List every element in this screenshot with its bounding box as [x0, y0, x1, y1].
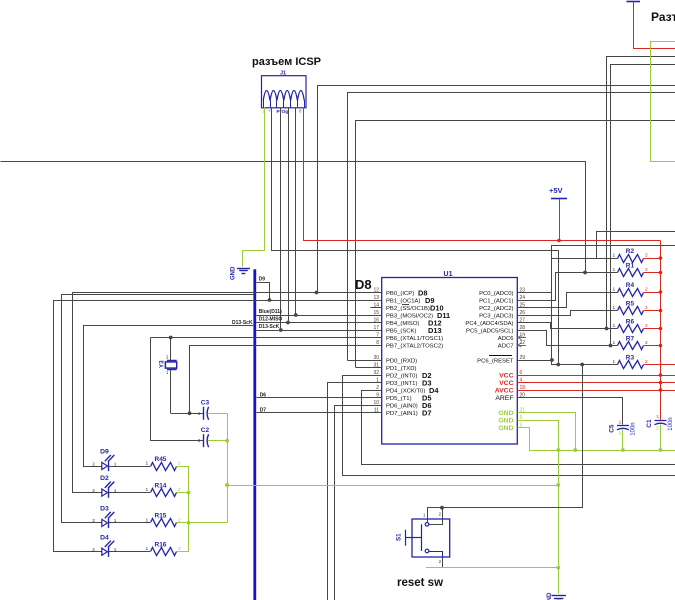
pin stub PB2	[370, 307, 381, 309]
wire PD6 down to bottom edge	[335, 406, 382, 600]
svg-text:PB6_(XTAL1/TOSC1): PB6_(XTAL1/TOSC1)	[386, 336, 443, 342]
wire J1 pin2 RESET	[272, 108, 559, 365]
svg-text:C5: C5	[608, 424, 615, 433]
wire +5V to red bus	[559, 199, 561, 241]
svg-text:VCC: VCC	[499, 380, 513, 387]
wire +5V top to right edge	[634, 2, 675, 49]
LED D9	[102, 462, 108, 469]
wire AREF to C5	[518, 398, 623, 425]
svg-text:2: 2	[92, 547, 95, 553]
capacitor C5	[617, 425, 629, 427]
svg-text:2: 2	[656, 426, 659, 432]
wire Y3 top	[170, 338, 172, 361]
svg-text:+5V: +5V	[549, 186, 563, 195]
wire J1 pin5 to PB3	[295, 108, 297, 315]
svg-text:2: 2	[198, 438, 201, 444]
svg-text:R3: R3	[626, 354, 635, 361]
wire from right edge to PD0 RXD	[348, 93, 675, 361]
svg-text:D9: D9	[100, 449, 109, 456]
green horizontal GND rail	[529, 450, 675, 452]
svg-text:1: 1	[146, 461, 149, 467]
green long wire LEDs to GND	[227, 485, 558, 487]
svg-text:D4: D4	[100, 534, 109, 541]
wire GND pin3	[518, 428, 530, 451]
svg-text:D7: D7	[422, 408, 431, 417]
wire GND pin5	[518, 420, 559, 422]
wire RESET row to R3	[518, 361, 618, 365]
svg-text:PC6_(RESET: PC6_(RESET	[477, 358, 514, 364]
svg-text:C2: C2	[201, 427, 210, 434]
wire PC5 staircase to R7	[518, 331, 618, 346]
svg-text:reset sw: reset sw	[397, 577, 443, 589]
green wire to C-gnd vertical	[189, 522, 228, 524]
svg-text:D12-MISO: D12-MISO	[259, 317, 283, 323]
resistor R7	[618, 342, 644, 350]
wire VCC pin6	[517, 375, 675, 377]
resistor R16	[151, 548, 177, 556]
wire XTAL1 to C2	[151, 338, 204, 441]
resistor R6	[618, 325, 644, 333]
svg-text:PB3_(MOSI/OC2): PB3_(MOSI/OC2)	[386, 313, 433, 319]
wire RESET from left edge to R1	[1, 162, 586, 273]
svg-text:16: 16	[373, 318, 379, 324]
wire D2 row	[72, 492, 102, 494]
wire PB7 XTAL2	[190, 345, 382, 347]
wire R5 pin2 to +5V bus	[644, 310, 661, 312]
wire PC1 staircase to R1	[518, 273, 618, 301]
svg-text:PD3_(INT1): PD3_(INT1)	[386, 381, 417, 387]
svg-text:D3: D3	[100, 506, 109, 513]
wire PD7 D7 to bus	[256, 412, 381, 414]
svg-text:AREF: AREF	[495, 395, 513, 402]
wire XTAL2 down to C3 node	[189, 345, 191, 413]
wire from right edge to PD1 TXD	[356, 121, 675, 368]
svg-text:PC3_(ADC3): PC3_(ADC3)	[479, 313, 513, 319]
wire PD0	[348, 360, 382, 362]
wire J1 pin1 GND green	[243, 108, 265, 267]
wire C5 to GND	[622, 430, 624, 451]
svg-text:R6: R6	[626, 318, 635, 325]
svg-text:PC5_(ADC5/SCL): PC5_(ADC5/SCL)	[466, 328, 514, 334]
svg-text:PD5_(T1): PD5_(T1)	[386, 396, 412, 402]
wire R14 to green	[177, 492, 189, 494]
bus D8-D13 thick blue vertical	[253, 269, 256, 600]
svg-text:2: 2	[92, 518, 95, 524]
stub ADC7 with arrow	[517, 345, 526, 347]
svg-text:PB7_(XTAL2/TOSC2): PB7_(XTAL2/TOSC2)	[386, 343, 443, 349]
svg-text:100n: 100n	[630, 422, 636, 435]
wire PD5 D6 to bus	[256, 397, 381, 399]
wire VCC pin4	[517, 382, 675, 384]
LED D2	[102, 489, 108, 496]
svg-text:1: 1	[114, 518, 117, 524]
svg-text:GND: GND	[231, 266, 237, 280]
svg-text:2: 2	[92, 461, 95, 467]
svg-text:100n: 100n	[668, 417, 674, 430]
capacitor C3	[203, 407, 205, 420]
capacitor C1	[655, 420, 667, 422]
svg-text:C1: C1	[646, 419, 653, 428]
svg-text:R1: R1	[626, 262, 635, 269]
LED D4	[102, 548, 108, 555]
wire J1 pin6 +5V red	[304, 108, 661, 241]
svg-text:PD7_(AIN1): PD7_(AIN1)	[386, 411, 418, 417]
wire LED vertical D3	[61, 295, 63, 523]
wire GND pin21	[518, 413, 576, 451]
svg-text:D13: D13	[428, 326, 442, 335]
svg-text:1: 1	[613, 253, 616, 259]
svg-text:Blue(D11): Blue(D11)	[259, 309, 282, 315]
svg-text:2: 2	[645, 253, 648, 259]
svg-text:PD2_(INT0): PD2_(INT0)	[386, 373, 417, 379]
resistor R45	[151, 463, 177, 471]
wire PB6 XTAL1	[151, 337, 382, 339]
svg-text:GND: GND	[498, 410, 513, 417]
svg-text:1: 1	[146, 517, 149, 523]
svg-text:AVCC: AVCC	[495, 387, 514, 394]
wire SDA to right edge connector	[607, 57, 675, 329]
power +5V symbol top right	[627, 1, 641, 3]
wire R6 pin2 to +5V bus	[644, 328, 661, 330]
svg-text:R16: R16	[155, 542, 167, 549]
svg-text:1: 1	[114, 547, 117, 553]
wire PD3 down to bottom edge	[328, 383, 382, 600]
wire PD4 down to right edge	[362, 391, 675, 465]
svg-text:R4: R4	[626, 282, 635, 289]
wire PC2 staircase to R4	[518, 293, 618, 308]
svg-text:D13-ScK: D13-ScK	[259, 324, 280, 330]
wire PD1	[356, 367, 382, 369]
resistor R14	[151, 489, 177, 497]
stub ADC6 with arrow	[517, 337, 526, 339]
green vertical to bottom ground	[558, 420, 560, 594]
wire R2 row to RESET net	[552, 259, 618, 361]
svg-text:15: 15	[373, 310, 379, 316]
svg-text:PD6_(AIN0): PD6_(AIN0)	[386, 403, 418, 409]
svg-text:PD1_(TXD): PD1_(TXD)	[386, 366, 416, 372]
wire LED vertical D9	[83, 325, 85, 466]
svg-text:D9: D9	[259, 277, 266, 283]
resistor R15	[151, 519, 177, 527]
svg-text:ADC6: ADC6	[498, 336, 514, 342]
svg-text:PD4_(XCK/T0): PD4_(XCK/T0)	[386, 388, 425, 394]
svg-text:1: 1	[146, 546, 149, 552]
wire PC3 staircase to R5	[518, 311, 618, 316]
wire R7 pin2 to +5V bus	[644, 345, 661, 347]
svg-text:S1: S1	[396, 533, 403, 541]
capacitor C2	[203, 434, 205, 447]
svg-text:R45: R45	[155, 456, 167, 463]
wire R15 to green	[177, 522, 189, 524]
wire C3 to GND green	[208, 413, 227, 415]
svg-text:2: 2	[645, 287, 648, 293]
resistor R4	[618, 289, 644, 297]
svg-text:1: 1	[114, 461, 117, 467]
svg-text:2: 2	[178, 461, 181, 467]
svg-text:17: 17	[373, 325, 379, 331]
wire PC4 staircase to R6	[518, 323, 618, 329]
wire AVCC pin18	[517, 390, 675, 392]
svg-text:PC4_(ADC4/SDA): PC4_(ADC4/SDA)	[465, 321, 513, 327]
wire GND vertical from C3	[227, 413, 229, 523]
wire C2 to GND green	[208, 440, 227, 442]
wire J1 pin3 to PB5	[280, 108, 282, 330]
svg-text:R2: R2	[626, 248, 635, 255]
svg-text:PD0_(RXD): PD0_(RXD)	[386, 358, 417, 364]
wire PC0 staircase to right edge	[518, 246, 675, 293]
wire from right edge to PB0 (D8)	[318, 86, 675, 293]
wire from right edge to R2	[597, 232, 675, 259]
svg-text:R15: R15	[155, 513, 167, 520]
wire Y3 bottom	[170, 369, 172, 413]
wire green right edge loop	[651, 42, 675, 162]
svg-text:PrOg: PrOg	[277, 109, 289, 115]
svg-text:ADC7: ADC7	[498, 343, 514, 349]
wire SCL to right edge connector	[611, 65, 675, 346]
svg-text:1: 1	[613, 287, 616, 293]
resistor R2	[618, 255, 644, 263]
wire PD2 down to bottom right	[343, 376, 675, 476]
svg-text:PB2_(SS/OC1B): PB2_(SS/OC1B)	[386, 306, 430, 312]
green wire switch to GND rail	[426, 567, 558, 569]
svg-text:PC0_(ADC0): PC0_(ADC0)	[479, 291, 513, 297]
svg-text:1: 1	[198, 411, 201, 417]
resistor R5	[618, 307, 644, 315]
red +5V vertical bus	[660, 241, 662, 420]
svg-text:D8: D8	[355, 277, 372, 292]
svg-text:PC2_(ADC2): PC2_(ADC2)	[479, 306, 513, 312]
svg-text:PC1_(ADC1): PC1_(ADC1)	[479, 298, 513, 304]
wire PB0 to LED D2 chain	[73, 293, 382, 493]
wire switch pin2 top	[429, 508, 443, 525]
svg-text:C3: C3	[201, 400, 210, 407]
svg-text:GND: GND	[498, 425, 513, 432]
bus entry left unnamed	[61, 294, 253, 296]
svg-text:PB1_(OC1A): PB1_(OC1A)	[386, 298, 420, 304]
svg-text:1: 1	[146, 487, 149, 493]
wire J1 pin4 to PB4	[288, 108, 290, 323]
green LED common vertical	[188, 466, 190, 552]
svg-text:Y3: Y3	[159, 360, 166, 368]
wire R2 pin2 to +5V bus	[644, 258, 661, 260]
wire R4 pin2 to +5V bus	[644, 292, 661, 294]
wire switch bottom to GND	[429, 552, 443, 568]
wire Y3 to C3	[171, 413, 204, 415]
svg-text:PB5_(SCK): PB5_(SCK)	[386, 328, 416, 334]
LED D3	[102, 519, 108, 526]
svg-text:PB0_(ICP): PB0_(ICP)	[386, 291, 414, 297]
resistor R3	[618, 361, 644, 369]
wire R1 pin2 to +5V bus	[644, 272, 661, 274]
svg-text:R14: R14	[155, 482, 167, 489]
svg-text:VCC: VCC	[499, 372, 513, 379]
svg-text:1: 1	[619, 419, 622, 425]
svg-text:разъем ICSP: разъем ICSP	[252, 56, 321, 68]
wire C1 to GND	[660, 424, 662, 450]
svg-text:D2: D2	[100, 475, 109, 482]
wire D4 row	[53, 551, 102, 553]
svg-text:Разъем: Разъем	[651, 10, 675, 24]
svg-text:1: 1	[656, 414, 659, 420]
wire D9 row	[83, 466, 102, 468]
wire R45 to green	[177, 466, 189, 468]
wire D3 row	[61, 522, 102, 524]
svg-text:1: 1	[114, 488, 117, 494]
svg-text:R7: R7	[626, 335, 635, 342]
svg-text:GND: GND	[498, 417, 513, 424]
svg-text:R5: R5	[626, 300, 635, 307]
resistor R1	[618, 269, 644, 277]
wire RESET net to switch	[428, 365, 583, 523]
wire R3 pin2 to right edge	[644, 364, 675, 366]
wire R16 to green	[177, 551, 189, 553]
svg-text:2: 2	[92, 488, 95, 494]
svg-text:2: 2	[618, 431, 621, 437]
svg-text:PB4_(MISO): PB4_(MISO)	[386, 321, 419, 327]
wire PB1 to LED D4 chain	[54, 301, 382, 552]
